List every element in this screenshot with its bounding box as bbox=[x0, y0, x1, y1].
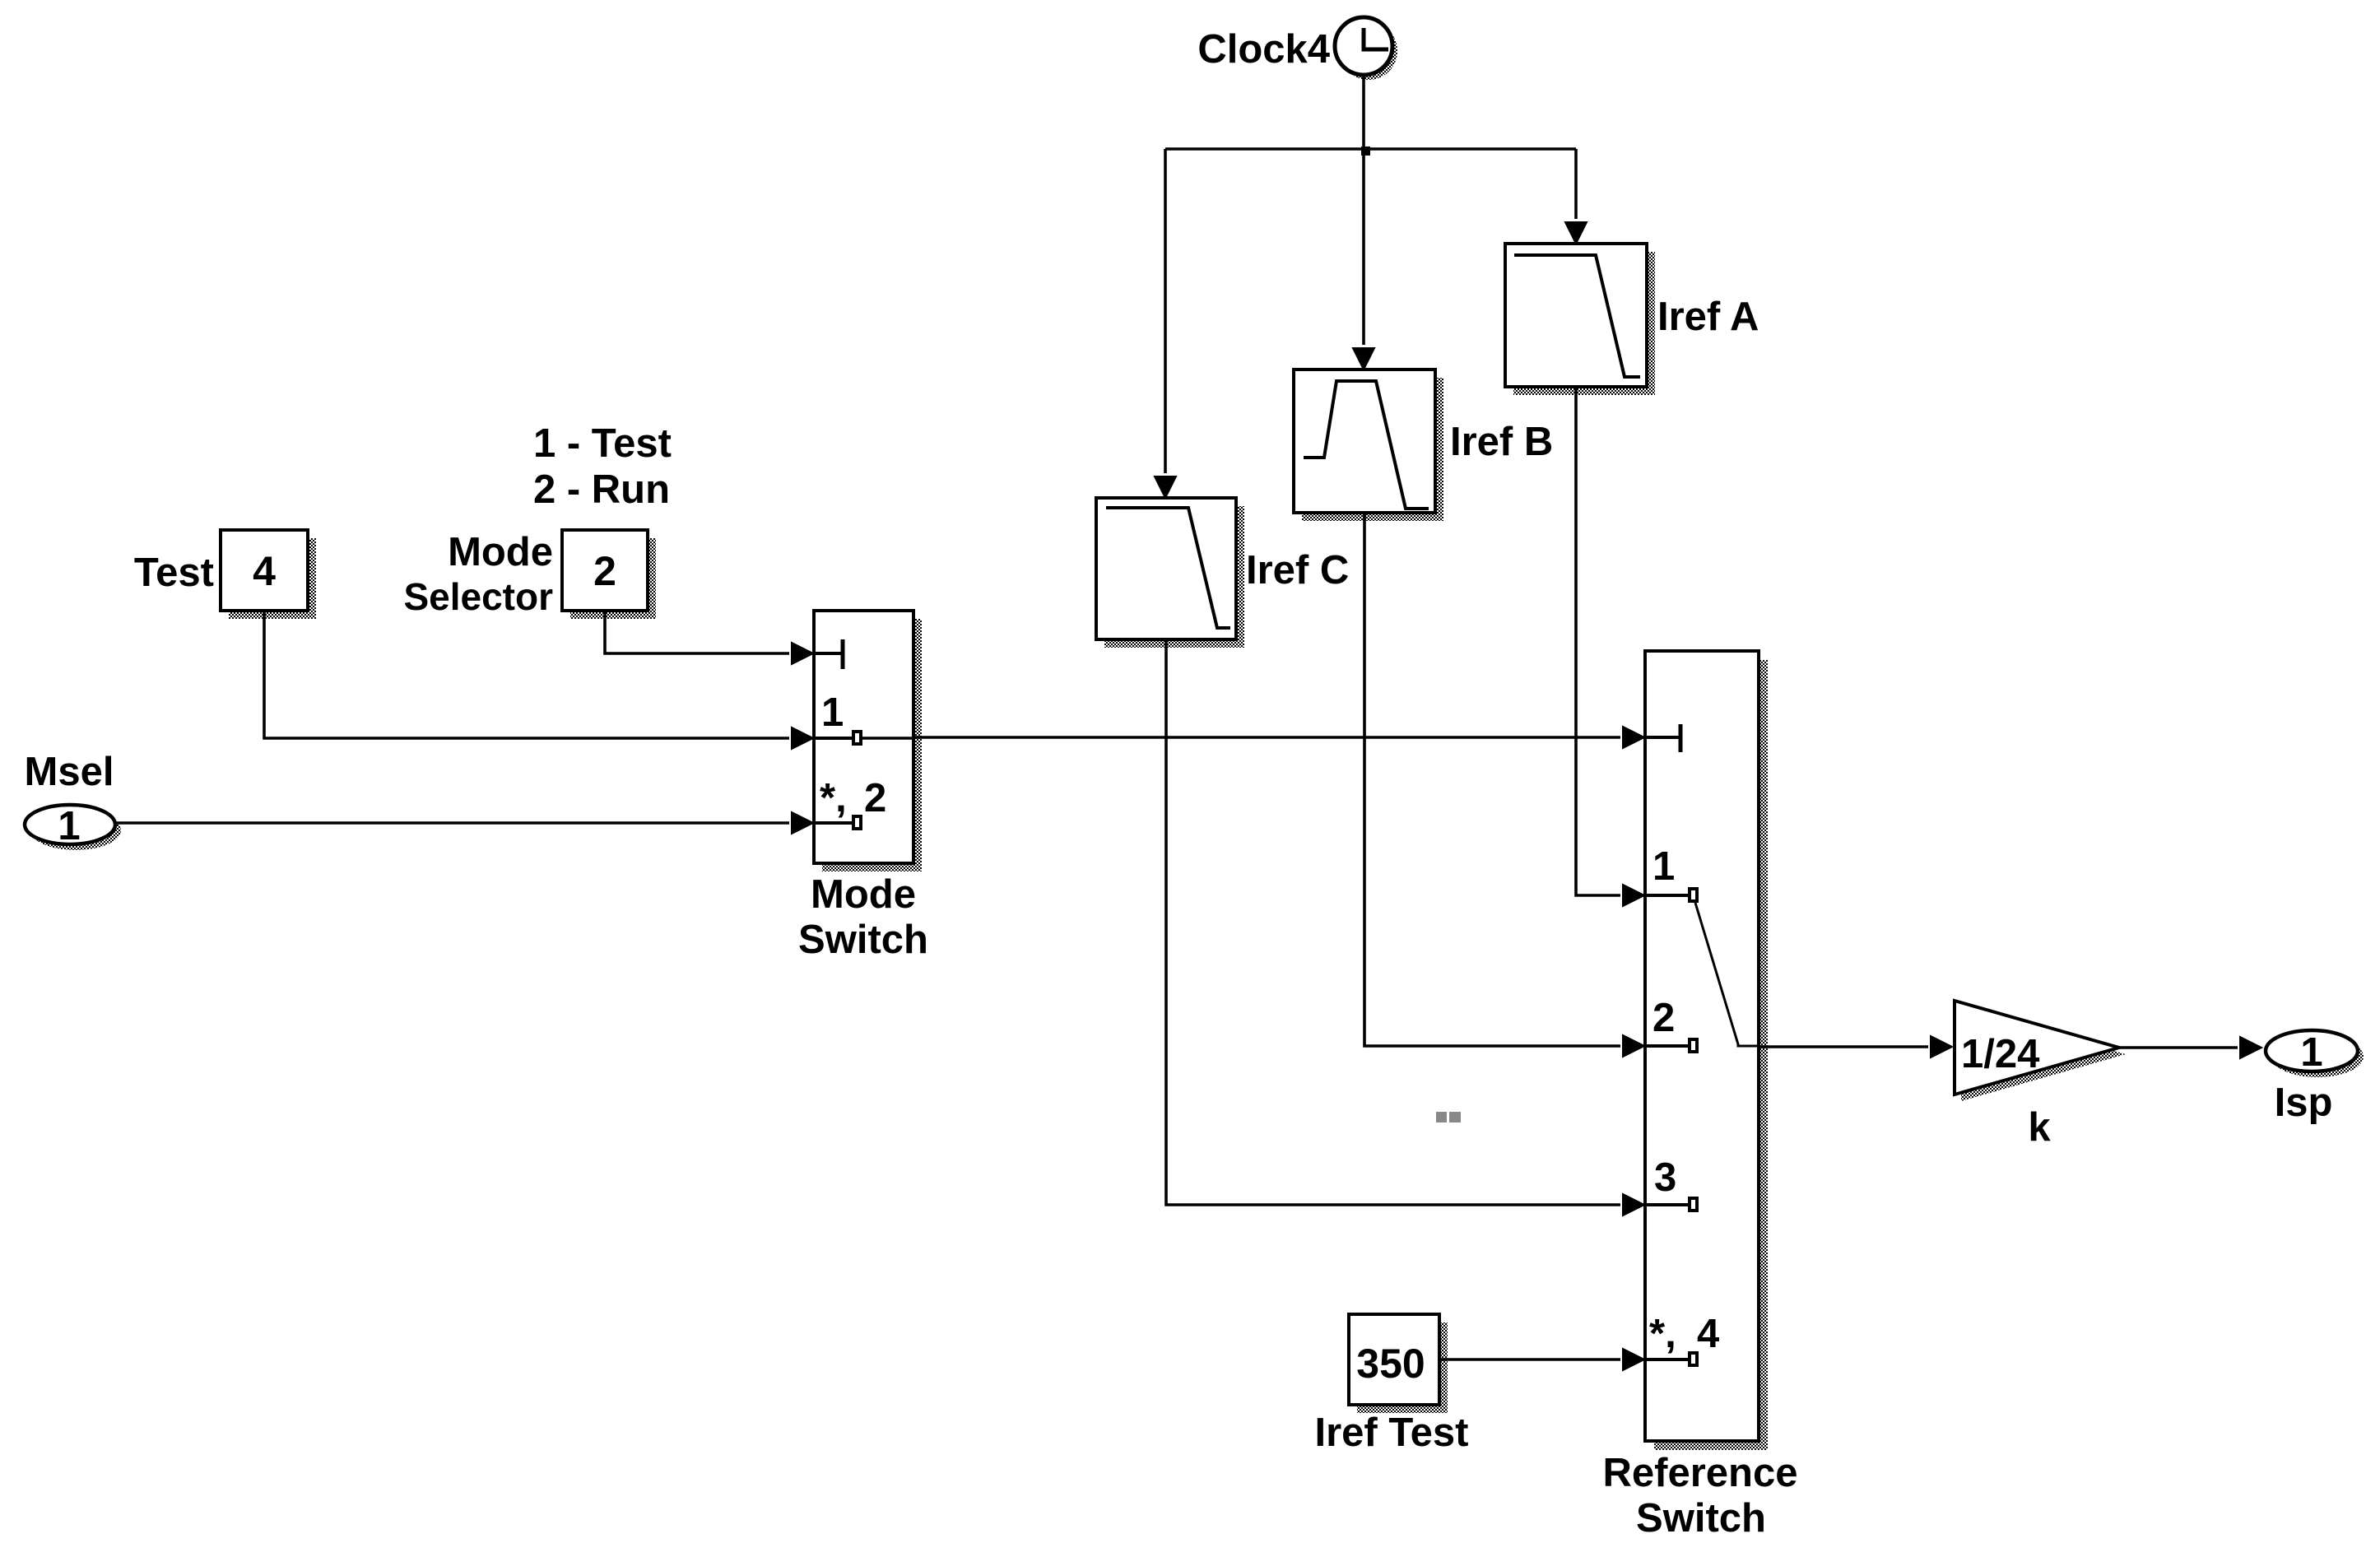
Reference Switch port *,4 stub bbox=[1645, 1353, 1697, 1365]
svg-text:Iref B: Iref B bbox=[1450, 420, 1553, 464]
label Mode Selector bbox=[403, 530, 553, 618]
svg-text:*,: *, bbox=[820, 776, 847, 820]
svg-text:Switch: Switch bbox=[1636, 1496, 1766, 1541]
wire Test output to Mode Switch port 1 bbox=[264, 611, 789, 738]
wire Msel to Mode Switch port 2 bbox=[115, 821, 789, 825]
arrowhead into Reference Switch tick bbox=[1623, 727, 1644, 748]
arrowhead into Mode Switch port 1 bbox=[792, 727, 813, 749]
Mode Switch port *,2 stub bbox=[814, 816, 861, 829]
svg-text:Mode: Mode bbox=[811, 872, 916, 917]
outport Isp bbox=[2266, 1030, 2364, 1077]
Reference Switch port 1 stub bbox=[1645, 889, 1697, 901]
arrowhead into Mode Switch tick bbox=[792, 643, 813, 664]
Reference Switch port 2 stub bbox=[1645, 1039, 1697, 1052]
svg-text:Switch: Switch bbox=[798, 918, 928, 962]
svg-text:1/24: 1/24 bbox=[1961, 1032, 2039, 1076]
Reference Switch port 3 stub bbox=[1645, 1198, 1697, 1211]
inport Msel bbox=[25, 804, 121, 850]
svg-text:1: 1 bbox=[1653, 844, 1675, 889]
svg-text:Iref A: Iref A bbox=[1657, 295, 1759, 339]
svg-text:4: 4 bbox=[1697, 1312, 1719, 1356]
wire right branch down to Iref A bbox=[1574, 149, 1578, 219]
wire left branch down to Iref C bbox=[1164, 149, 1167, 473]
svg-text:Reference: Reference bbox=[1603, 1451, 1798, 1495]
arrowhead into Isp bbox=[2240, 1037, 2261, 1058]
Reference Switch switch arm bbox=[1695, 903, 1759, 1046]
svg-text:1: 1 bbox=[58, 804, 80, 848]
annotation 1 - Test / 2 - Run bbox=[533, 421, 672, 512]
wire Mode Selector output to Mode Switch tick port bbox=[605, 611, 789, 653]
svg-text:1: 1 bbox=[821, 690, 844, 735]
wire Reference Switch output to gain k bbox=[1759, 1045, 1928, 1048]
arrowhead into Reference Switch port 4 bbox=[1623, 1349, 1644, 1370]
wire Iref Test output to Reference Switch port 4 bbox=[1439, 1358, 1620, 1361]
lookup block Iref B bbox=[1294, 369, 1443, 521]
label Mode Switch bbox=[798, 872, 928, 962]
svg-text:Test: Test bbox=[134, 551, 214, 595]
svg-text:2: 2 bbox=[593, 548, 616, 594]
wire Iref C output to Reference Switch port 3 bbox=[1166, 639, 1620, 1205]
label Reference Switch bbox=[1603, 1451, 1798, 1541]
artifact gray dots bbox=[1436, 1112, 1461, 1122]
Mode Switch control tick port bbox=[814, 639, 843, 669]
wire Iref B output to Reference Switch port 2 bbox=[1364, 513, 1620, 1046]
wire gain k output to Isp bbox=[2119, 1046, 2238, 1049]
arrowhead into gain k bbox=[1931, 1036, 1952, 1057]
arrowhead into Iref B bbox=[1353, 348, 1374, 369]
svg-text:2 - Run: 2 - Run bbox=[533, 467, 670, 512]
svg-text:Msel: Msel bbox=[25, 750, 114, 794]
wire Iref A output to Reference Switch port 1 bbox=[1576, 387, 1620, 895]
arrowhead into Reference Switch port 1 bbox=[1623, 885, 1644, 906]
svg-text:4: 4 bbox=[253, 548, 276, 594]
multiport switch Mode Switch bbox=[814, 611, 922, 871]
wire Mode Switch output to Reference Switch tick port bbox=[862, 737, 1620, 738]
lookup block Iref A bbox=[1505, 244, 1655, 395]
wire horizontal clock distribution bbox=[1165, 147, 1576, 151]
svg-text:3: 3 bbox=[1654, 1155, 1676, 1200]
arrowhead into Reference Switch port 2 bbox=[1623, 1035, 1644, 1057]
junction node on clock line bbox=[1361, 146, 1370, 156]
svg-text:Isp: Isp bbox=[2275, 1081, 2333, 1125]
svg-text:350: 350 bbox=[1356, 1341, 1425, 1387]
constant block Test (value 4) bbox=[221, 530, 316, 619]
svg-text:Iref Test: Iref Test bbox=[1315, 1411, 1469, 1455]
constant block Mode Selector (value 2) bbox=[562, 530, 656, 619]
svg-text:Selector: Selector bbox=[403, 575, 553, 618]
arrowhead into Iref C bbox=[1155, 476, 1176, 498]
arrowhead into Reference Switch port 3 bbox=[1623, 1194, 1644, 1215]
svg-text:2: 2 bbox=[1653, 996, 1675, 1040]
arrowhead into Mode Switch port 2 bbox=[792, 812, 813, 834]
svg-text:2: 2 bbox=[864, 776, 886, 820]
svg-text:Mode: Mode bbox=[448, 530, 553, 574]
multiport switch Reference Switch bbox=[1645, 651, 1768, 1450]
wire from Clock4 down to Iref B bbox=[1362, 75, 1365, 345]
Mode Switch port 1 stub bbox=[814, 732, 861, 744]
constant block Iref Test (value 350) bbox=[1349, 1314, 1448, 1413]
clock source Clock4 bbox=[1335, 17, 1397, 80]
svg-text:k: k bbox=[2028, 1105, 2051, 1150]
gain block k (1/24) bbox=[1955, 1001, 2126, 1101]
svg-text:1: 1 bbox=[2300, 1030, 2322, 1075]
lookup block Iref C bbox=[1096, 498, 1244, 648]
svg-text:1 - Test: 1 - Test bbox=[533, 421, 672, 466]
svg-text:*,: *, bbox=[1649, 1312, 1676, 1356]
svg-text:Iref C: Iref C bbox=[1246, 548, 1349, 593]
svg-text:Clock4: Clock4 bbox=[1197, 27, 1330, 72]
Reference Switch control tick port bbox=[1645, 724, 1680, 752]
arrowhead into Iref A bbox=[1565, 222, 1587, 244]
